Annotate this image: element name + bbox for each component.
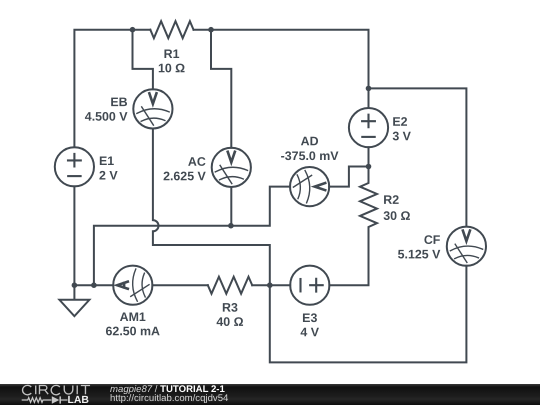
wire E2-top node to CF top bbox=[369, 88, 467, 226]
svg-text:AM1: AM1 bbox=[120, 310, 146, 324]
voltmeter EB bbox=[133, 89, 172, 128]
svg-text:E1: E1 bbox=[99, 154, 114, 168]
footer bar bbox=[0, 384, 540, 405]
svg-text:10 Ω: 10 Ω bbox=[158, 61, 185, 75]
resistor R3 bbox=[208, 277, 252, 294]
ammeter AD bbox=[290, 167, 329, 206]
ground rail wire bbox=[74, 284, 113, 286]
footer title line bbox=[110, 384, 225, 393]
svg-text:R3: R3 bbox=[222, 301, 238, 315]
wire E1 top lead is included above; E1 source bbox=[55, 147, 94, 186]
wire R3 right to E3 left bbox=[252, 284, 290, 286]
wire R1 right to E2 column bbox=[194, 30, 369, 89]
svg-text:3 V: 3 V bbox=[392, 129, 411, 143]
svg-text:4.500 V: 4.500 V bbox=[85, 110, 128, 124]
svg-text:40 Ω: 40 Ω bbox=[216, 315, 243, 329]
wire top-left: E1 top to R1 left bbox=[74, 30, 150, 147]
wire E2 top lead bbox=[368, 88, 370, 108]
svg-text:4 V: 4 V bbox=[300, 325, 319, 339]
node dot bus drop bbox=[91, 282, 97, 288]
wire R1 left node to EB top bbox=[133, 30, 153, 90]
wire AD right to E2-bottom node bbox=[329, 167, 368, 187]
resistor R2 with leads bbox=[329, 167, 377, 286]
svg-text:R1: R1 bbox=[164, 47, 180, 61]
svg-text:AC: AC bbox=[188, 155, 206, 169]
svg-text:LAB: LAB bbox=[67, 395, 89, 405]
wire AD left down to ground bus bbox=[94, 187, 290, 286]
ground symbol bbox=[59, 285, 89, 316]
wire E1 bottom to ground node bbox=[73, 186, 75, 285]
svg-text:R2: R2 bbox=[383, 193, 399, 207]
footer url line bbox=[110, 394, 228, 403]
svg-text:E2: E2 bbox=[392, 115, 407, 129]
node dot ground bbox=[72, 282, 78, 288]
svg-text:AD: AD bbox=[301, 134, 319, 148]
node dot E2 top bbox=[366, 86, 372, 92]
voltage source E3 bbox=[290, 266, 329, 305]
node dot AC bottom junction bbox=[228, 223, 234, 229]
CircuitLab logo wordmark bbox=[0, 384, 100, 405]
ammeter AM1 bbox=[113, 266, 152, 305]
svg-text:30 Ω: 30 Ω bbox=[383, 209, 410, 223]
svg-text:E3: E3 bbox=[302, 311, 317, 325]
wire R1 right node to AC top bbox=[211, 30, 231, 148]
node dot R1 right bbox=[208, 27, 214, 33]
svg-text:-375.0 mV: -375.0 mV bbox=[281, 149, 340, 163]
node dot E2 bottom bbox=[366, 164, 372, 170]
wire AM1 right lead bbox=[152, 284, 207, 286]
wire E2 bottom lead bbox=[368, 147, 370, 166]
wire bottom rail to CF bottom bbox=[270, 266, 467, 363]
svg-text:62.50 mA: 62.50 mA bbox=[106, 324, 160, 338]
voltage source E2 bbox=[349, 108, 388, 147]
svg-text:2.625 V: 2.625 V bbox=[163, 169, 206, 183]
voltmeter CF bbox=[447, 227, 486, 266]
wire EB bottom with hop over ground bus bbox=[153, 129, 270, 286]
node dot R1 left bbox=[130, 27, 136, 33]
svg-text:2 V: 2 V bbox=[99, 168, 118, 182]
svg-text:CF: CF bbox=[424, 233, 441, 247]
resistor R1 bbox=[150, 21, 193, 38]
node dot R3/E3 junction bbox=[267, 282, 273, 288]
wire AC bottom lead bbox=[230, 187, 232, 226]
svg-text:EB: EB bbox=[110, 95, 127, 109]
svg-text:5.125 V: 5.125 V bbox=[398, 247, 441, 261]
voltmeter AC bbox=[212, 148, 251, 187]
